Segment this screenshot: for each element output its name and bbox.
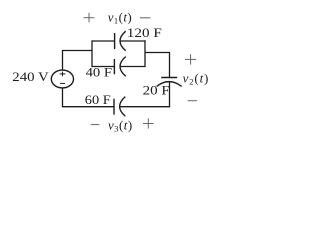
svg-text:20 F: 20 F [143, 83, 170, 98]
plus v3 [143, 123, 154, 125]
capacitor C1 120F [115, 31, 126, 51]
capacitor C2 40F [114, 57, 125, 77]
minus v2 [188, 100, 197, 102]
svg-text:v1(t): v1(t) [108, 10, 132, 26]
wire: bottom branch left segment [92, 66, 114, 68]
plus v2 [185, 58, 196, 60]
svg-text:v2(t): v2(t) [183, 71, 210, 87]
wire: left vertical of parallel section (node A) [91, 40, 93, 67]
svg-text:40 F: 40 F [86, 65, 112, 80]
minus v3 [91, 124, 100, 126]
svg-text:60 F: 60 F [85, 92, 111, 107]
wire: top branch left segment [92, 40, 115, 42]
wire: bottom branch right segment [120, 66, 145, 68]
wire: top branch right segment [120, 40, 145, 42]
minus inside source [60, 82, 65, 84]
plus v1 [84, 17, 95, 19]
minus v1 [140, 17, 150, 19]
wire: exit wire right then down to 20F top [145, 53, 170, 78]
wire: right vertical of parallel section (node B) [144, 40, 146, 67]
wire: source bottom lead down to bottom rail [63, 88, 114, 107]
wire: 20F bottom lead down to bottom rail corner [169, 82, 171, 107]
svg-text:120 F: 120 F [127, 25, 162, 40]
svg-text:v3(t): v3(t) [108, 118, 133, 134]
wire: bottom rail right segment [120, 106, 171, 108]
plus inside source [60, 72, 66, 84]
capacitor C4 20F [157, 78, 182, 87]
capacitor C3 60F [114, 97, 125, 117]
polarity marks for v1 [84, 13, 198, 129]
svg-text:240 V: 240 V [12, 69, 49, 84]
wire: source top lead up and right to parallel node A [63, 51, 93, 71]
voltage source V1 240V [51, 70, 73, 88]
